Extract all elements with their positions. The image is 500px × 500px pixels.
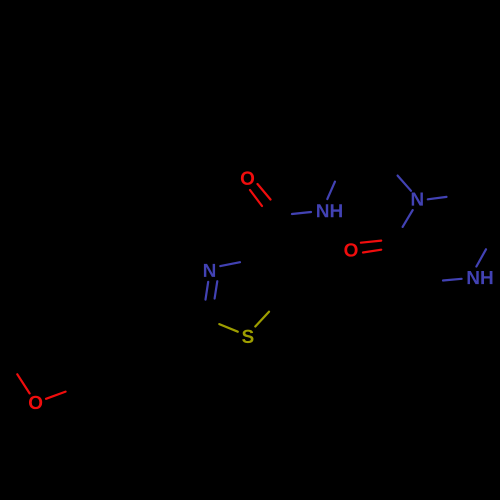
blue half-bond pip N1-C2 carbonyl [403,210,413,227]
wire amide C-N black half [263,214,292,218]
atom label N thiazole [204,264,215,277]
atom label O ether [29,396,42,409]
atom label S thiazole [242,330,253,343]
wire phenyl to thiazole C2 [163,310,203,317]
wire thiazole ring black parts [203,255,282,336]
blue half-bonds thiazole N3=C2 double [206,281,218,299]
blue half-bond pip C3-N4 [443,279,462,281]
wire pip C6-N1 black half [447,192,473,197]
wire lactam C=O black halves [381,240,393,250]
wire pip C3-N4 black half [408,280,441,291]
wire cyclohexane ring [330,72,428,153]
wire N-C1' cyclohexane black half [335,153,349,182]
wire benzene ring C3a-C4-C5-C6-C7-C7a (dihydrobenzofuran aryl) [85,303,175,394]
olive half-bond S1-C5 thiazole [255,312,269,327]
wire amide C=O black halves [262,200,273,213]
red half-bonds lactam C=O double [361,241,381,253]
wire C2'-N1 pip black half [383,140,398,176]
wire pip C2-C3 bond [393,247,408,291]
blue half-bond amide N-C1' [327,182,335,200]
red half-bond O1 ether right to C7a [46,392,66,399]
blue half-bond pip N1-C6 [428,197,447,199]
red half-bond O1 ether up-left [17,374,29,393]
atom label NH amide [317,204,342,217]
atom label NH piperazinone [468,271,493,284]
atom label O lactam [344,243,357,256]
olive half-bond S1-C2 thiazole [219,324,238,332]
atom label N piperazinone [412,193,423,206]
wire pip C5-C6 bond [472,192,497,230]
blue half-bond pip N4-C5 [476,249,486,266]
red half-bonds amide C=O double [250,184,271,206]
wire thiazole C4=C5 inner line [264,260,273,297]
wire pip N1-C2 black half [393,227,403,247]
blue half-bond pip N1-C2' cyclohexane [398,176,411,191]
wire C7a-O ether bond black half [66,380,96,392]
wire pip N4-C5 black half [486,230,497,249]
atom label O amide carbonyl [241,171,254,184]
wire benzene inner double bonds [94,312,169,386]
blue half-bond amide C-N [292,212,311,214]
wire C4 to amide carbonyl C [263,218,271,255]
blue half-bond thiazole N3-C4 [220,262,240,266]
wire dihydrofuran ring CH2-CH2 segments [12,330,85,393]
